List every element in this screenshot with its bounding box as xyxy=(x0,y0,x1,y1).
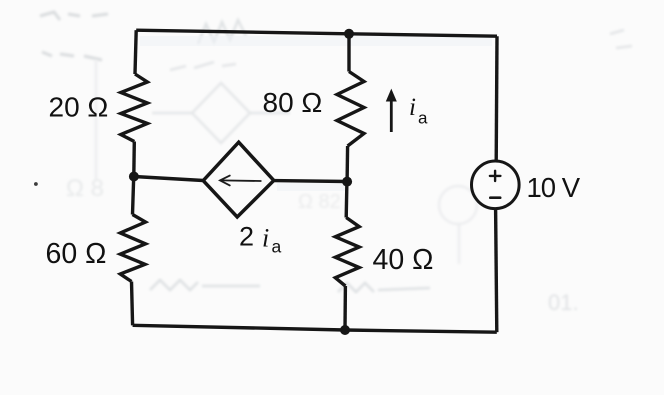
wire top-right horizontal segment xyxy=(349,34,497,36)
wire middle top stub (top node to 80 ohm) xyxy=(347,34,350,72)
current reference arrow i_a xyxy=(386,89,397,132)
svg-text:i: i xyxy=(409,94,416,121)
svg-text:01.: 01. xyxy=(548,290,579,315)
svg-text:20 Ω: 20 Ω xyxy=(49,92,109,123)
voltage source V1 (circle) xyxy=(472,161,520,209)
wire left vertical (corner to 20 ohm) xyxy=(135,30,136,74)
dependent source gain label 2 i_a xyxy=(239,222,282,257)
wire left node to 60 ohm xyxy=(133,177,134,215)
resistor 80 ohm xyxy=(337,72,364,147)
wire right vertical lower (source to corner) xyxy=(496,209,497,332)
svg-text:Ω 82: Ω 82 xyxy=(298,191,341,213)
current arrow inside dependent source xyxy=(220,176,261,186)
wire bottom-right horizontal segment xyxy=(345,330,497,332)
ghost artifacts from page show-through (decorative) xyxy=(40,12,632,70)
resistor 60 ohm xyxy=(120,215,145,282)
svg-text:Ω 8: Ω 8 xyxy=(66,175,104,202)
current label i_a xyxy=(409,94,428,128)
svg-text:2: 2 xyxy=(239,222,254,252)
wire 20 ohm to left node xyxy=(132,142,136,177)
dependent current source U1 (diamond) xyxy=(203,142,274,217)
svg-text:i: i xyxy=(262,224,269,253)
svg-text:a: a xyxy=(272,237,282,257)
svg-text:10 V: 10 V xyxy=(527,172,581,203)
svg-text:60 Ω: 60 Ω xyxy=(46,238,107,270)
stray ink speck xyxy=(34,182,38,186)
wire right vertical upper (corner to source) xyxy=(495,36,499,161)
node junction dot (bottom) xyxy=(340,325,350,335)
svg-text:a: a xyxy=(418,109,428,128)
node junction dot (right middle) xyxy=(342,177,352,187)
svg-text:40 Ω: 40 Ω xyxy=(373,244,434,276)
wire 60 ohm to bottom-left corner xyxy=(132,282,133,326)
wire left node to dependent source xyxy=(134,177,203,181)
minus sign of voltage source xyxy=(490,196,500,199)
node junction dot (left middle) xyxy=(129,172,139,182)
wire 40 ohm to bottom node xyxy=(343,286,347,330)
svg-text:80 Ω: 80 Ω xyxy=(263,87,323,118)
wire dependent source to middle node xyxy=(274,179,347,183)
wire top-left horizontal segment xyxy=(136,30,349,34)
resistor 40 ohm xyxy=(335,218,359,287)
plus sign of voltage source xyxy=(490,171,501,181)
wire middle node to 40 ohm xyxy=(345,182,349,218)
resistor 20 ohm xyxy=(121,74,148,142)
wire bottom-left horizontal segment xyxy=(133,325,345,330)
wire 80 ohm to middle node xyxy=(345,146,349,182)
node junction dot (top) xyxy=(344,29,354,39)
